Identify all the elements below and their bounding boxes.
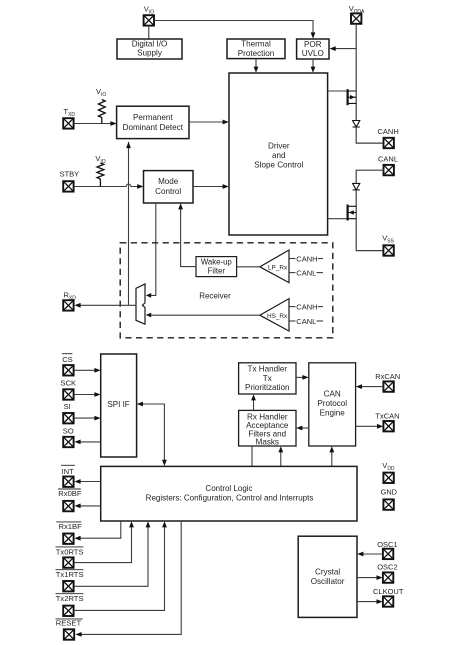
wire VIO to Digital I/O Supply — [148, 26, 150, 39]
node LP_Rx CANH input — [289, 258, 296, 260]
svg-text:Tx0RTS: Tx0RTS — [56, 548, 84, 557]
pin CANH — [384, 138, 394, 148]
pin CLKOUT — [383, 596, 393, 606]
svg-text:Prioritization: Prioritization — [245, 383, 290, 392]
pin Tx0RTS — [63, 557, 73, 567]
svg-text:CAN: CAN — [324, 390, 341, 399]
wire Thermal Protection to Driver — [255, 59, 257, 70]
svg-text:Oscillator: Oscillator — [311, 577, 345, 586]
pin SI — [63, 413, 73, 423]
block Control Logic — [101, 466, 357, 521]
svg-text:Digital I/O: Digital I/O — [132, 39, 168, 48]
svg-text:CANH: CANH — [296, 254, 317, 263]
svg-text:SCK: SCK — [60, 379, 76, 388]
diode CANL — [353, 183, 360, 190]
wire Control Logic to Rx0BF — [78, 505, 101, 507]
block POR UVLO — [297, 39, 329, 59]
wire TXD to Permanent Dominant Detect — [74, 123, 114, 125]
wire Mode Control to mux — [148, 203, 156, 295]
wire Permanent Dominant Detect to Driver — [189, 121, 226, 123]
wire Tx Handler to CAN Protocol Engine — [296, 376, 306, 378]
wire RXD node to Permanent Dominant Detect — [128, 142, 130, 305]
svg-text:CLKOUT: CLKOUT — [373, 587, 404, 596]
svg-text:Engine: Engine — [320, 409, 346, 418]
wire diode to NMOS — [355, 190, 357, 251]
pin Rx0BF — [63, 501, 73, 511]
svg-text:Thermal: Thermal — [241, 40, 271, 49]
pin CANL — [384, 165, 394, 175]
wire Rx Handler to Tx Handler — [253, 397, 255, 410]
wire Crystal Oscillator to OSC2 — [357, 577, 380, 579]
svg-text:Control Logic: Control Logic — [205, 484, 252, 493]
svg-text:OSC1: OSC1 — [377, 540, 397, 549]
block Rx Handler Acceptance Filters and Masks — [239, 410, 296, 446]
svg-text:Wake-up: Wake-up — [201, 258, 233, 267]
wire Control Logic to INT — [78, 481, 101, 483]
block SPI IF — [101, 354, 137, 457]
power pin VIO (top) — [144, 15, 154, 25]
wire mux to RXD — [78, 304, 137, 306]
power pin VDDA — [351, 13, 361, 23]
svg-text:OSC2: OSC2 — [377, 562, 397, 571]
svg-text:CS: CS — [62, 355, 73, 364]
svg-text:CANH: CANH — [296, 302, 317, 311]
mux RXD select — [136, 284, 145, 324]
svg-text:Protocol: Protocol — [317, 399, 347, 408]
receiver dashed box — [120, 243, 333, 338]
svg-text:HS_Rx: HS_Rx — [267, 313, 288, 320]
svg-text:STBY: STBY — [60, 170, 80, 179]
comparator LP_Rx — [260, 250, 289, 283]
wire Control Logic to CAN Protocol Engine — [331, 449, 333, 466]
svg-text:Driver: Driver — [268, 142, 290, 151]
svg-text:SPI IF: SPI IF — [107, 400, 129, 409]
svg-text:TxCAN: TxCAN — [375, 411, 399, 420]
wire VDDA branch to POR UVLO — [333, 48, 357, 50]
power pin GND — [383, 499, 393, 509]
pin INT — [63, 477, 73, 487]
transistor NMOS low-side — [348, 205, 357, 221]
pin TXD — [63, 118, 73, 128]
block Driver and Slope Control — [229, 73, 328, 235]
svg-text:and: and — [272, 151, 286, 160]
pin CS — [63, 365, 73, 375]
svg-text:Supply: Supply — [137, 49, 163, 58]
svg-text:CANL: CANL — [296, 317, 316, 326]
svg-text:CANL: CANL — [378, 154, 398, 163]
transistor PMOS high-side — [348, 89, 357, 105]
svg-text:SI: SI — [64, 402, 71, 411]
resistor STBY pullup — [97, 163, 104, 179]
svg-text:Crystal: Crystal — [315, 567, 340, 576]
wire SCK to SPI IF — [74, 394, 98, 396]
pin Rx1BF — [63, 534, 73, 544]
wire Tx0RTS to Control Logic — [74, 524, 132, 562]
svg-text:RxCAN: RxCAN — [375, 372, 400, 381]
wire LP_Rx to Wake-up Filter — [237, 266, 260, 268]
pin SO — [63, 437, 73, 447]
wire CS to SPI IF — [74, 369, 98, 371]
diode CANH — [353, 121, 360, 128]
pin RESET — [64, 629, 74, 639]
svg-text:Tx Handler: Tx Handler — [248, 364, 288, 373]
svg-text:LP_Rx: LP_Rx — [268, 265, 288, 272]
wire diode to CANH pin — [356, 127, 384, 143]
svg-text:INT: INT — [62, 467, 75, 476]
wire Wake-up Filter to Mode Control — [181, 207, 196, 267]
pin STBY — [63, 181, 73, 191]
wire Tx1RTS to Control Logic — [74, 524, 148, 586]
svg-text:GND: GND — [381, 488, 397, 497]
pin RXD — [63, 300, 73, 310]
wire STBY to Mode Control with hop — [74, 184, 141, 186]
pin Tx2RTS — [63, 606, 73, 616]
svg-text:SO: SO — [63, 426, 74, 435]
pin SCK — [63, 389, 73, 399]
wire VDDA rail down to PMOS — [355, 24, 357, 121]
svg-text:Rx1BF: Rx1BF — [59, 522, 83, 531]
block Crystal Oscillator — [298, 536, 357, 617]
svg-text:Mode: Mode — [158, 177, 179, 186]
wire VIO to POR UVLO — [154, 21, 313, 36]
wire RxCAN to CAN Protocol Engine — [359, 386, 384, 388]
svg-text:Permanent: Permanent — [133, 113, 173, 122]
svg-text:Rx0BF: Rx0BF — [58, 489, 82, 498]
wire CAN Protocol Engine to TxCAN — [356, 425, 381, 427]
svg-text:Protection: Protection — [238, 49, 274, 58]
svg-text:Registers: Configuration, Cont: Registers: Configuration, Control and In… — [146, 494, 314, 503]
resistor TXD pullup — [98, 100, 105, 118]
wire POR UVLO to Driver — [312, 59, 314, 70]
power pin VDD — [383, 473, 393, 483]
wire Crystal Oscillator to CLKOUT — [357, 601, 380, 603]
block Digital I/O Supply — [117, 39, 182, 59]
block Wake-up Filter — [196, 257, 237, 277]
svg-text:RESET: RESET — [56, 619, 82, 628]
pin RxCAN — [383, 381, 393, 391]
wire Driver to PMOS gate — [328, 90, 347, 92]
svg-text:Tx1RTS: Tx1RTS — [56, 570, 84, 579]
svg-text:CANH: CANH — [378, 127, 399, 136]
svg-text:Filter: Filter — [208, 266, 226, 275]
pin TxCAN — [383, 421, 393, 431]
pin Tx1RTS — [63, 581, 73, 591]
block Permanent Dominant Detect — [117, 106, 189, 138]
svg-text:CANL: CANL — [296, 268, 316, 277]
wire Control Logic to Rx Handler plain — [251, 446, 253, 466]
power pin VSS — [383, 245, 393, 255]
wire Control Logic to Rx1BF — [78, 521, 121, 538]
svg-text:POR: POR — [304, 40, 322, 49]
pin OSC1 — [383, 549, 393, 559]
node HS_Rx CANH input — [289, 306, 296, 308]
wire Control Logic to RESET — [79, 521, 182, 634]
wire HS_Rx to mux — [148, 314, 260, 316]
node HS_Rx CANL input — [289, 320, 296, 322]
wire SI to SPI IF — [74, 417, 98, 419]
block Thermal Protection — [227, 39, 285, 59]
svg-text:Receiver: Receiver — [199, 291, 231, 300]
pin OSC2 — [383, 572, 393, 582]
svg-text:Control: Control — [155, 187, 181, 196]
wire NMOS to VSS pin — [356, 250, 384, 252]
node LP_Rx CANL input — [289, 272, 296, 274]
svg-text:UVLO: UVLO — [302, 49, 324, 58]
wire CANL pin to diode — [356, 170, 384, 183]
wire OSC1 to Crystal Oscillator — [360, 553, 383, 555]
block CAN Protocol Engine — [309, 363, 356, 446]
wire Driver to NMOS gate — [328, 218, 347, 220]
svg-text:Masks: Masks — [256, 438, 279, 447]
svg-text:Tx2RTS: Tx2RTS — [56, 594, 84, 603]
wire Control Logic to Rx Handler arrow — [280, 449, 282, 466]
wire SPI IF to Control Logic — [140, 404, 165, 463]
block Tx Handler Tx Prioritization — [239, 363, 296, 394]
comparator HS_Rx — [260, 299, 289, 331]
svg-text:Slope Control: Slope Control — [254, 161, 303, 170]
wire Mode Control to Driver — [193, 186, 226, 188]
wire SPI IF to SO — [78, 441, 101, 443]
wire CAN Protocol Engine to Rx Handler — [299, 427, 309, 429]
block Mode Control — [144, 171, 194, 203]
svg-text:Tx: Tx — [263, 374, 272, 383]
svg-text:Dominant Detect: Dominant Detect — [123, 123, 184, 132]
wire Tx2RTS to Control Logic — [74, 524, 165, 610]
